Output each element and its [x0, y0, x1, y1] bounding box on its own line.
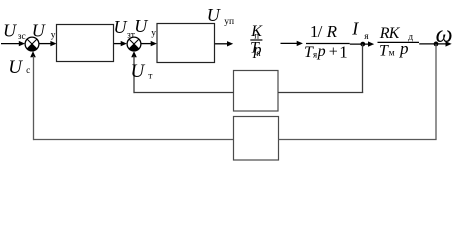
- svg-text:с: с: [26, 66, 30, 76]
- svg-text:я: я: [364, 32, 369, 42]
- svg-text:U: U: [8, 57, 23, 78]
- svg-text:U: U: [131, 61, 146, 82]
- svg-text:U: U: [114, 17, 128, 37]
- svg-text:R: R: [326, 22, 338, 41]
- svg-text:+: +: [329, 43, 338, 60]
- svg-text:я: я: [257, 48, 261, 58]
- svg-text:p: p: [399, 39, 409, 58]
- svg-text:зс: зс: [18, 32, 26, 42]
- svg-text:у: у: [151, 28, 156, 38]
- svg-text:я: я: [313, 50, 317, 60]
- svg-text:K: K: [388, 25, 401, 42]
- svg-text:д: д: [408, 32, 413, 42]
- svg-text:U: U: [3, 20, 17, 40]
- svg-text:Т: Т: [379, 43, 389, 60]
- svg-text:/: /: [318, 22, 323, 41]
- svg-text:ω: ω: [436, 22, 453, 48]
- svg-text:м: м: [389, 49, 395, 59]
- svg-text:U: U: [207, 5, 221, 25]
- svg-text:1: 1: [339, 42, 348, 61]
- svg-text:U: U: [134, 16, 148, 36]
- svg-text:у: у: [51, 31, 56, 41]
- svg-text:уп: уп: [224, 17, 234, 27]
- svg-text:p: p: [317, 43, 326, 60]
- svg-text:U: U: [32, 20, 46, 40]
- svg-text:I: I: [351, 19, 359, 39]
